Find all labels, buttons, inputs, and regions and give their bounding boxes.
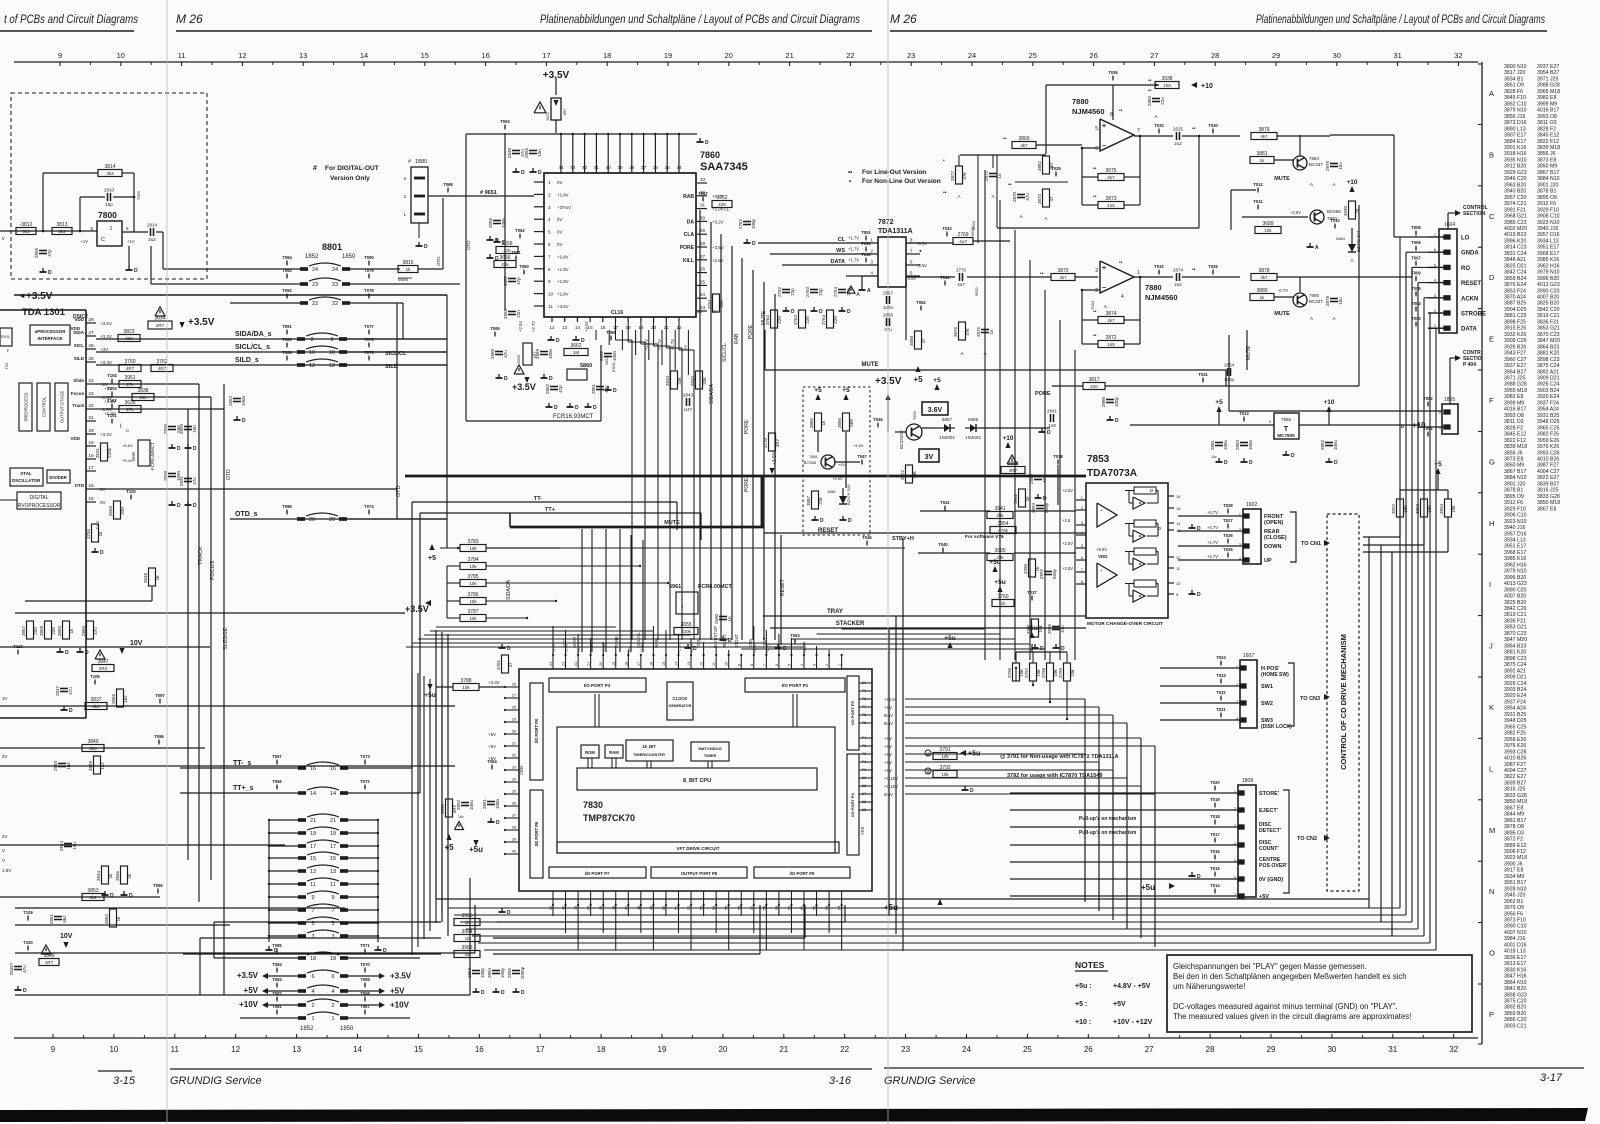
svg-text:3845 F10: 3845 F10 [1504, 95, 1526, 101]
svg-text:2875: 2875 [976, 326, 981, 337]
svg-text:4016 B17: 4016 B17 [1504, 407, 1526, 413]
svg-text:3830 K16: 3830 K16 [1504, 967, 1526, 973]
svg-text:PORE: PORE [744, 419, 750, 434]
svg-text:D: D [1061, 646, 1065, 652]
svg-text:47p: 47p [558, 385, 563, 393]
svg-text:T104: T104 [107, 373, 117, 378]
svg-text:T101: T101 [107, 413, 117, 418]
svg-text:14: 14 [330, 791, 336, 797]
svg-text:TDA7073A: TDA7073A [1087, 468, 1137, 479]
svg-text:3658: 3658 [501, 241, 512, 247]
svg-text:4R7: 4R7 [126, 366, 135, 371]
svg-text:2870: 2870 [1012, 191, 1017, 202]
svg-text:30: 30 [512, 730, 516, 734]
svg-text:100u: 100u [1223, 439, 1228, 450]
svg-text:G: G [1489, 457, 1495, 466]
svg-text:33: 33 [700, 177, 706, 182]
svg-text:+5u: +5u [1141, 883, 1155, 892]
svg-text:68: 68 [862, 784, 866, 788]
svg-text:D: D [521, 170, 525, 176]
svg-text:T077: T077 [364, 324, 374, 329]
svg-text:12: 12 [700, 662, 704, 666]
svg-text:DA: DA [687, 219, 695, 225]
svg-text:NRST: NRST [572, 636, 577, 648]
svg-text:3903 C21: 3903 C21 [1504, 1023, 1527, 1029]
svg-text:3993 O8: 3993 O8 [1504, 413, 1524, 419]
svg-text:3965 C25: 3965 C25 [1537, 425, 1560, 431]
svg-text:T030: T030 [1208, 123, 1218, 128]
svg-text:14: 14 [1176, 521, 1181, 526]
svg-text:28: 28 [512, 706, 516, 710]
svg-text:8: 8 [310, 337, 313, 343]
svg-text:1n: 1n [727, 616, 732, 622]
svg-text:22: 22 [840, 1045, 849, 1054]
svg-text:3979 N10: 3979 N10 [1504, 569, 1527, 575]
svg-text:TO CN2: TO CN2 [1297, 836, 1317, 842]
svg-text:3892 A21: 3892 A21 [1537, 369, 1559, 375]
svg-text:25: 25 [1023, 1045, 1032, 1054]
svg-text:3974 C21: 3974 C21 [1504, 201, 1527, 207]
svg-text:COUNT': COUNT' [1259, 846, 1279, 852]
svg-text:14: 14 [360, 51, 368, 60]
svg-text:3999 M9: 3999 M9 [1504, 400, 1524, 406]
svg-text:3850: 3850 [57, 625, 62, 636]
svg-text:3954 A24: 3954 A24 [1537, 407, 1559, 413]
svg-text:TROL: TROL [0, 335, 10, 339]
svg-text:NOTES: NOTES [1075, 960, 1105, 970]
svg-text:3884 N10: 3884 N10 [1537, 176, 1560, 182]
svg-text:19: 19 [612, 662, 616, 666]
svg-text:XTAL: XTAL [20, 471, 32, 476]
svg-text:3852: 3852 [104, 913, 109, 924]
svg-text:3996 B20: 3996 B20 [1504, 575, 1526, 581]
svg-text:4R7: 4R7 [775, 438, 780, 447]
svg-text:3991 F21: 3991 F21 [1504, 207, 1526, 213]
svg-text:D: D [23, 988, 27, 994]
svg-text:3882: 3882 [1037, 160, 1042, 171]
svg-text:3858 G23: 3858 G23 [1504, 992, 1527, 998]
svg-text:T029: T029 [1051, 166, 1061, 171]
svg-text:I/O PORT P7: I/O PORT P7 [585, 871, 610, 876]
svg-text:4: 4 [800, 664, 804, 666]
svg-text:71: 71 [862, 760, 866, 764]
svg-text:27: 27 [512, 694, 516, 698]
svg-text:NJM4560: NJM4560 [1072, 107, 1105, 116]
svg-text:I/O PORT P3: I/O PORT P3 [584, 683, 611, 688]
svg-text:7872: 7872 [878, 219, 894, 226]
svg-text:••: •• [1192, 126, 1196, 132]
svg-text:43: 43 [570, 165, 576, 170]
svg-text:5: 5 [1095, 126, 1098, 132]
svg-text:+5u: +5u [884, 903, 898, 912]
svg-text:3781: 3781 [496, 659, 501, 670]
svg-text:2R2: 2R2 [99, 666, 108, 671]
svg-text:7853: 7853 [1087, 454, 1110, 465]
svg-text:3856 J16: 3856 J16 [1504, 114, 1525, 120]
svg-text:T074: T074 [364, 504, 374, 509]
svg-text:3928 N10: 3928 N10 [1504, 886, 1527, 892]
svg-text:3688: 3688 [909, 335, 914, 346]
svg-text:2853: 2853 [604, 355, 609, 365]
svg-text:TDA1311A: TDA1311A [878, 228, 913, 235]
svg-text:MUTE: MUTE [1274, 311, 1290, 317]
svg-text:14: 14 [310, 791, 316, 797]
svg-text:T022: T022 [1216, 690, 1226, 695]
svg-text:ACKN: ACKN [1461, 296, 1478, 302]
svg-text:T012: T012 [1253, 182, 1263, 187]
svg-text:+5V: +5V [488, 744, 496, 749]
svg-text:44: 44 [587, 906, 591, 910]
svg-text:3867 E8: 3867 E8 [1537, 506, 1556, 512]
svg-text:3872 F2: 3872 F2 [1504, 837, 1523, 843]
svg-text:(HOME SW): (HOME SW) [1261, 672, 1289, 678]
svg-text:37: 37 [641, 165, 647, 170]
svg-text:24: 24 [968, 51, 976, 60]
svg-text:20: 20 [718, 1045, 727, 1054]
svg-text:2: 2 [1239, 528, 1241, 532]
svg-text:EJECT': EJECT' [1259, 808, 1279, 814]
svg-text:1n8: 1n8 [1048, 423, 1056, 428]
svg-text:3937 F24: 3937 F24 [1537, 400, 1559, 406]
svg-text:D: D [1047, 430, 1051, 436]
svg-text:7865: 7865 [1281, 417, 1292, 422]
svg-text:D: D [593, 405, 597, 411]
svg-text:+5V: +5V [390, 987, 405, 996]
svg-text:330n: 330n [501, 217, 506, 228]
svg-text:DATA: DATA [1461, 327, 1477, 333]
svg-text:29: 29 [700, 228, 706, 233]
svg-text:3881 C25: 3881 C25 [1504, 313, 1527, 319]
svg-text:3943 F27: 3943 F27 [1504, 351, 1526, 357]
svg-text:SICL/CL: SICL/CL [636, 632, 641, 648]
svg-text:3823: 3823 [123, 329, 134, 335]
svg-text:T051: T051 [861, 230, 871, 235]
svg-text:T050: T050 [861, 241, 871, 246]
svg-text:3843: 3843 [665, 375, 670, 386]
svg-text:3962 H16: 3962 H16 [1537, 263, 1560, 269]
svg-text:38: 38 [629, 165, 635, 170]
svg-text:3898 C23: 3898 C23 [1504, 656, 1527, 662]
svg-text:7684: 7684 [1309, 156, 1320, 161]
svg-text:CONTROL OF CD DRIVE MECHANISM: CONTROL OF CD DRIVE MECHANISM [1339, 634, 1348, 770]
svg-text:20: 20 [309, 517, 315, 523]
svg-text:2878: 2878 [1325, 295, 1330, 306]
svg-text:4: 4 [1234, 842, 1236, 846]
svg-text:14: 14 [353, 1045, 362, 1054]
svg-text:47: 47 [508, 662, 513, 668]
svg-text:100n: 100n [548, 348, 553, 359]
svg-text:3788: 3788 [460, 678, 471, 684]
svg-text:3929 F10: 3929 F10 [1537, 207, 1559, 213]
svg-text:23: 23 [907, 51, 915, 60]
svg-text:DC-voltages measured against m: DC-voltages measured against minus termi… [1173, 1002, 1398, 1011]
svg-text:100n: 100n [241, 395, 246, 406]
svg-text:FCR16,93MCT: FCR16,93MCT [553, 414, 594, 420]
svg-text:3907 E17: 3907 E17 [1504, 133, 1526, 139]
svg-text:T037: T037 [1027, 590, 1037, 595]
svg-text:3901 J20: 3901 J20 [1537, 182, 1558, 188]
svg-text:3895 O9: 3895 O9 [1537, 195, 1557, 201]
svg-text:+2.5: +2.5 [1062, 518, 1071, 523]
svg-text:1n: 1n [989, 329, 994, 335]
svg-text:−: − [1102, 285, 1106, 292]
svg-text:•: • [943, 158, 945, 164]
svg-text:+2.5V: +2.5V [1062, 566, 1073, 571]
svg-text:2855: 2855 [524, 147, 529, 158]
svg-text:47: 47 [1049, 196, 1054, 202]
svg-text:T016: T016 [1210, 849, 1220, 854]
svg-text:3841 B20: 3841 B20 [1504, 986, 1526, 992]
svg-text:15: 15 [310, 856, 316, 862]
svg-text:10k: 10k [941, 754, 949, 759]
svg-text:18: 18 [597, 1045, 606, 1054]
svg-text:31: 31 [700, 203, 706, 208]
svg-text:+3.5V: +3.5V [557, 304, 569, 309]
svg-text:1k: 1k [98, 531, 103, 537]
svg-text:3923 N10: 3923 N10 [1504, 519, 1527, 525]
svg-text:17: 17 [310, 844, 316, 850]
svg-text:3879 N10: 3879 N10 [1504, 108, 1527, 114]
svg-text:77: 77 [862, 705, 866, 709]
svg-text:3894: 3894 [1439, 503, 1444, 514]
svg-text:+5u :: +5u : [1075, 983, 1092, 990]
svg-text:I/O PORT P9: I/O PORT P9 [790, 871, 815, 876]
svg-text:61: 61 [800, 906, 804, 910]
svg-text:3912 F6: 3912 F6 [1537, 201, 1556, 207]
svg-text:3842 C24: 3842 C24 [1504, 270, 1527, 276]
svg-text:3839 B27: 3839 B27 [1504, 780, 1526, 786]
svg-text:1: 1 [1434, 324, 1436, 328]
svg-text:3V: 3V [925, 454, 934, 461]
svg-text:3867 B17: 3867 B17 [1537, 170, 1559, 176]
svg-text:11: 11 [330, 882, 336, 888]
svg-text:3938: 3938 [1161, 76, 1172, 82]
svg-text:3988 G28: 3988 G28 [1504, 382, 1527, 388]
svg-text:3968 G21: 3968 G21 [1504, 214, 1527, 220]
svg-text:D: D [129, 893, 133, 899]
svg-text:24: 24 [88, 378, 94, 384]
svg-text:DOWN: DOWN [1264, 544, 1281, 550]
svg-text:MUTE: MUTE [862, 362, 879, 368]
svg-text:3631: 3631 [95, 447, 100, 458]
svg-text:7: 7 [762, 664, 766, 666]
svg-text:48: 48 [637, 906, 641, 910]
svg-text:+1.8V: +1.8V [557, 267, 569, 272]
svg-text:72: 72 [862, 752, 866, 756]
svg-text:D: D [100, 550, 104, 556]
svg-text:23: 23 [88, 391, 94, 397]
svg-text:1k: 1k [1260, 295, 1266, 300]
svg-text:3884 N10: 3884 N10 [1504, 475, 1527, 481]
svg-text:2882: 2882 [1320, 439, 1325, 450]
svg-text:3962 H16: 3962 H16 [1504, 562, 1527, 568]
svg-text:BZX79 3V9: BZX79 3V9 [846, 484, 851, 505]
svg-text:OTD: OTD [226, 469, 232, 480]
svg-text:12: 12 [231, 1045, 240, 1054]
svg-text:PORE: PORE [748, 324, 754, 339]
svg-text:T047: T047 [857, 454, 867, 459]
svg-text:SICL: SICL [74, 343, 85, 348]
svg-text:3976 K26: 3976 K26 [1504, 743, 1526, 749]
svg-text:2: 2 [331, 1003, 334, 1009]
svg-text:+5: +5 [842, 387, 850, 394]
svg-text:CONTROL: CONTROL [42, 396, 47, 417]
svg-text:47u: 47u [1025, 193, 1030, 201]
svg-text:1852: 1852 [305, 254, 319, 260]
svg-text:SILD: SILD [74, 356, 85, 361]
svg-text:3763: 3763 [793, 314, 798, 325]
svg-text:47u: 47u [22, 965, 27, 973]
svg-text:3876 E24: 3876 E24 [1504, 282, 1526, 288]
svg-text:330: 330 [120, 507, 125, 515]
svg-text:OTD: OTD [396, 485, 402, 497]
svg-text:3935 N10: 3935 N10 [1504, 157, 1527, 163]
svg-text:3874: 3874 [1105, 311, 1116, 317]
svg-text:••: •• [1119, 260, 1123, 266]
svg-text:10k: 10k [469, 616, 477, 621]
svg-text:76: 76 [862, 713, 866, 717]
svg-text:RO: RO [1461, 266, 1470, 272]
svg-text:5: 5 [1234, 859, 1236, 863]
svg-text:36: 36 [653, 165, 659, 170]
svg-text:16: 16 [330, 766, 336, 772]
svg-text:2752: 2752 [738, 218, 743, 229]
svg-text:+1.7V: +1.7V [848, 236, 859, 241]
svg-text:3785: 3785 [467, 574, 478, 580]
svg-text:4R7: 4R7 [562, 108, 567, 116]
svg-text:3690: 3690 [1343, 205, 1348, 216]
svg-text:For DIGITAL-OUT: For DIGITAL-OUT [325, 165, 379, 172]
svg-text:10: 10 [309, 350, 315, 356]
svg-text:3833 G28: 3833 G28 [1504, 793, 1527, 799]
svg-text:D: D [507, 910, 511, 916]
svg-text:55: 55 [725, 906, 729, 910]
svg-text:2841: 2841 [1047, 409, 1058, 414]
svg-text:t of PCBs and Circuit Diagrams: t of PCBs and Circuit Diagrams [4, 12, 138, 26]
svg-text:TS2: TS2 [5, 363, 9, 369]
svg-text:D: D [48, 270, 52, 276]
svg-text:47: 47 [624, 906, 628, 910]
svg-text:SLEDGE: SLEDGE [223, 627, 229, 650]
svg-text:4k7: 4k7 [1260, 275, 1268, 280]
svg-text:MC7805: MC7805 [1277, 433, 1295, 438]
svg-text:3828 F2: 3828 F2 [1504, 425, 1523, 431]
svg-text:15: 15 [421, 51, 429, 60]
svg-text:1: 1 [838, 664, 842, 666]
svg-text:3813 E17: 3813 E17 [1504, 961, 1526, 967]
svg-text:27: 27 [1150, 51, 1158, 60]
svg-text:T029: T029 [1208, 264, 1218, 269]
svg-text:2k7: 2k7 [1107, 318, 1115, 323]
svg-text:3934 L13: 3934 L13 [1504, 537, 1526, 543]
svg-text:7830: 7830 [583, 800, 603, 810]
svg-text:1k: 1k [127, 873, 132, 879]
svg-text:T024: T024 [1216, 655, 1226, 660]
svg-text:3900 J6: 3900 J6 [1504, 861, 1523, 867]
svg-text:2859: 2859 [535, 348, 540, 359]
svg-text:27: 27 [88, 330, 94, 336]
svg-text:3817 J20: 3817 J20 [1504, 70, 1525, 76]
svg-text:+3.5V: +3.5V [772, 451, 778, 465]
svg-text:3797: 3797 [1024, 667, 1029, 678]
svg-text:2861: 2861 [591, 383, 596, 394]
svg-text:D: D [1334, 460, 1338, 466]
svg-text:17: 17 [330, 844, 336, 850]
svg-text:3k3: 3k3 [58, 229, 66, 234]
svg-text:12: 12 [329, 363, 335, 369]
svg-text:T070: T070 [360, 962, 370, 967]
svg-text:3873 E8: 3873 E8 [1537, 157, 1556, 163]
svg-text:18: 18 [310, 956, 316, 962]
svg-text:DETECT': DETECT' [1259, 828, 1281, 834]
svg-text:+1.8V: +1.8V [557, 192, 569, 197]
svg-text:8: 8 [750, 664, 754, 666]
svg-text:1808: 1808 [1242, 778, 1253, 784]
svg-text:20: 20 [599, 662, 603, 666]
svg-text:17: 17 [536, 1045, 545, 1054]
svg-text:3920 E24: 3920 E24 [1537, 394, 1559, 400]
svg-text:VDD: VDD [519, 766, 524, 775]
svg-text:3V: 3V [2, 754, 8, 759]
svg-text:BC558: BC558 [804, 460, 817, 465]
svg-text:22p: 22p [818, 288, 823, 296]
svg-text:3798: 3798 [1041, 667, 1046, 678]
svg-text:24: 24 [332, 267, 338, 273]
svg-text:3898 C23: 3898 C23 [1537, 357, 1560, 363]
svg-text:T078: T078 [364, 288, 374, 293]
svg-text:RESET: RESET [1461, 281, 1481, 287]
svg-text:Track: Track [72, 403, 84, 408]
svg-text:3990 C10: 3990 C10 [1504, 924, 1527, 930]
svg-text:7881: 7881 [809, 454, 819, 459]
svg-text:T057: T057 [698, 191, 708, 196]
svg-text:T069: T069 [606, 330, 616, 335]
svg-text:1607: 1607 [1243, 653, 1254, 659]
svg-text:16_BIT: 16_BIT [642, 744, 656, 749]
svg-text:A: A [1332, 316, 1335, 321]
svg-text:Platinenabbildungen und Schalt: Platinenabbildungen und Schaltpläne / La… [540, 14, 860, 26]
svg-text:23: 23 [562, 662, 566, 666]
svg-text:3895 O3: 3895 O3 [1504, 830, 1524, 836]
svg-text:15: 15 [414, 1045, 423, 1054]
svg-text:0V: 0V [683, 345, 688, 350]
svg-text:12: 12 [1176, 555, 1181, 560]
svg-text:uPROCESSOR: uPROCESSOR [35, 329, 67, 334]
svg-text:3751: 3751 [707, 298, 712, 309]
svg-text:T060: T060 [519, 264, 529, 269]
svg-text:9: 9 [311, 895, 314, 901]
svg-text:3929 G23: 3929 G23 [1504, 170, 1527, 176]
svg-text:+5: +5 [444, 843, 454, 852]
svg-text:-0.7V: -0.7V [1278, 288, 1288, 293]
svg-text:3987 F27: 3987 F27 [1504, 762, 1526, 768]
svg-text:3982 F25: 3982 F25 [1504, 731, 1526, 737]
svg-text:3909 D21: 3909 D21 [1504, 675, 1527, 681]
svg-text:5: 5 [787, 664, 791, 666]
svg-text:10k: 10k [1403, 505, 1408, 513]
svg-text:9: 9 [737, 664, 741, 666]
svg-text:17: 17 [637, 662, 641, 666]
svg-text:3762: 3762 [765, 314, 770, 325]
svg-text:5860: 5860 [580, 363, 592, 369]
svg-text:3987 F27: 3987 F27 [1537, 463, 1559, 469]
svg-text:27: 27 [1145, 1045, 1154, 1054]
svg-text:Slide: Slide [73, 378, 84, 383]
svg-text:3973 F10: 3973 F10 [1504, 918, 1526, 924]
svg-text:+5: +5 [913, 375, 923, 384]
svg-text:+9.6V: +9.6V [1096, 547, 1107, 552]
svg-text:3870 A24: 3870 A24 [1504, 295, 1526, 301]
